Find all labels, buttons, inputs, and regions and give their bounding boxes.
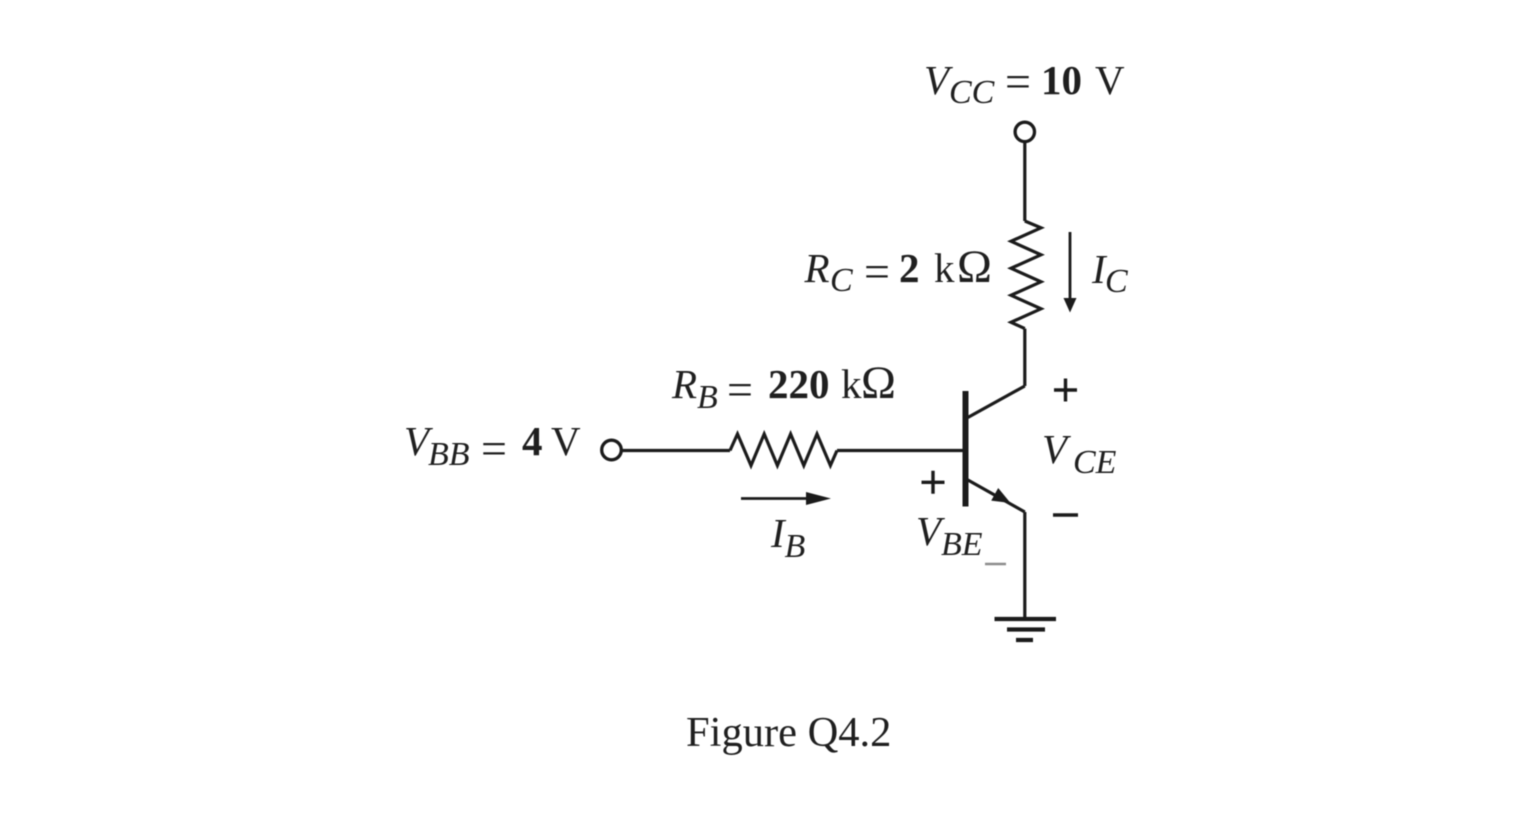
plus sign VBE <box>922 471 945 494</box>
resistor RB <box>730 434 837 466</box>
arrowhead IB <box>806 492 831 505</box>
resistor RC <box>1011 221 1041 329</box>
transistor collector wire <box>966 386 1025 419</box>
ground <box>995 619 1057 640</box>
wire emitter to ground <box>1023 512 1026 619</box>
svg-text:VBE: VBE <box>916 508 983 563</box>
svg-text:VCE: VCE <box>1042 426 1117 481</box>
svg-text:IC: IC <box>1091 246 1128 300</box>
svg-text:RC=2kΩ: RC=2kΩ <box>804 241 992 299</box>
wire RC to collector <box>1023 329 1026 386</box>
transistor emitter arrowhead <box>991 488 1010 503</box>
wire VCC to RC <box>1023 142 1026 222</box>
transistor base bar <box>963 391 969 507</box>
transistor emitter wire <box>967 480 1025 513</box>
arrowhead IC <box>1064 298 1077 313</box>
svg-text:VBB=4V: VBB=4V <box>404 418 581 474</box>
current arrow IB <box>741 497 813 500</box>
wire RB to base <box>837 449 963 452</box>
minus sign VCE <box>1053 513 1078 516</box>
svg-text:RB=220kΩ: RB=220kΩ <box>671 357 896 416</box>
svg-text:IB: IB <box>770 510 806 565</box>
current arrow IC <box>1069 232 1072 299</box>
svg-text:Figure Q4.2: Figure Q4.2 <box>686 709 891 756</box>
svg-text:VCC=10V: VCC=10V <box>924 56 1125 111</box>
terminal VCC <box>1015 122 1034 141</box>
minus sign VBE <box>985 563 1006 566</box>
wire VBB to RB <box>621 449 731 452</box>
terminal VBB <box>602 440 622 460</box>
plus sign VCE <box>1054 379 1077 402</box>
